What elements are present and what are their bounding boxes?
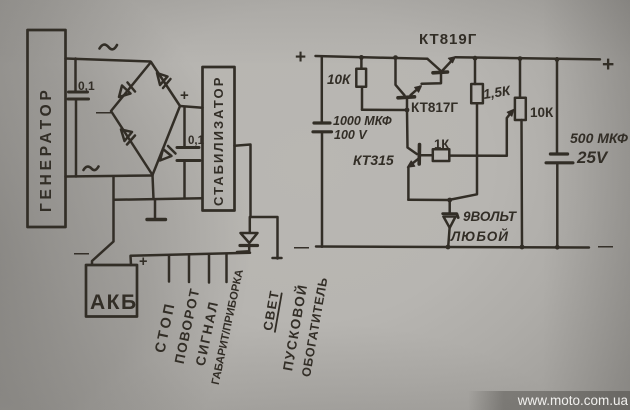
diode bridge diamond <box>111 62 180 175</box>
svg-text:9ВОЛЬТ: 9ВОЛЬТ <box>463 209 518 224</box>
terminal tick GABARIT <box>225 255 228 282</box>
wire R1 to base node <box>362 108 407 111</box>
svg-text:—: — <box>294 239 309 256</box>
svg-text:0,1: 0,1 <box>78 79 95 93</box>
transistor Q1 KT819G <box>419 31 477 84</box>
svg-text:500 МКФ: 500 МКФ <box>570 130 628 146</box>
svg-text:ГЕНЕРАТОР: ГЕНЕРАТОР <box>38 86 55 212</box>
zener diode VD 9V <box>443 200 518 247</box>
bottom rail <box>316 247 589 248</box>
svg-text:10К: 10К <box>530 105 554 120</box>
svg-text:10К: 10К <box>327 72 352 87</box>
wire KT315 emitter to zener node <box>408 199 449 202</box>
resistor R2 1,5K <box>451 59 513 200</box>
top rail right segment <box>456 57 601 59</box>
wire to SVET branch <box>251 217 278 259</box>
svg-text:100 V: 100 V <box>334 128 368 142</box>
node base KT817 dot <box>405 108 410 113</box>
junction dot rail R1 <box>359 55 364 60</box>
SVET terminal tick <box>273 257 282 260</box>
bridge diode D2 upper-right <box>157 73 171 88</box>
svg-text:+: + <box>180 87 189 104</box>
svg-text:КТ817Г: КТ817Г <box>411 100 458 115</box>
svg-text:+: + <box>295 47 306 68</box>
transistor Q2 KT817G <box>396 57 459 115</box>
svg-text:АКБ: АКБ <box>90 291 138 314</box>
potentiometer wiper arm <box>507 109 514 156</box>
bridge diode D4 lower-right <box>160 146 176 161</box>
wire bridge bottom to ground node <box>153 175 154 199</box>
terminal tick STOP <box>168 256 171 282</box>
capacitor C2 0,1 bridge output <box>177 108 205 198</box>
wire stabilizer output <box>235 145 251 217</box>
svg-text:ЛЮБОЙ: ЛЮБОЙ <box>450 228 509 244</box>
svg-text:КТ819Г: КТ819Г <box>419 31 477 48</box>
svg-text:СТАБИЛИЗАТОР: СТАБИЛИЗАТОР <box>211 75 226 206</box>
wire ground node horizontal <box>114 198 203 200</box>
terminal tick SIGNAL <box>208 255 211 283</box>
capacitor C4 500uF 25V <box>546 59 628 247</box>
capacitor C3 1000uF 100V <box>313 57 392 247</box>
resistor R3 1K <box>433 137 507 162</box>
transistor Q3 KT315 <box>353 110 433 200</box>
svg-text:КТ315: КТ315 <box>353 152 394 168</box>
top rail left segment <box>316 56 428 59</box>
svg-text:—: — <box>74 245 89 262</box>
bridge diode D1 upper-left <box>119 83 135 98</box>
junction dot bottom R4 <box>520 245 525 250</box>
ground <box>147 200 166 220</box>
svg-text:25V: 25V <box>576 148 609 167</box>
svg-text:—: — <box>598 238 613 255</box>
junction dot rail Q2 <box>393 55 398 60</box>
stabilizer box <box>203 67 235 211</box>
svg-text:1000 МКФ: 1000 МКФ <box>333 114 392 128</box>
label SVET (underlined) <box>260 288 282 331</box>
junction dot bottom C4 <box>555 245 560 250</box>
AC tilde top <box>100 45 118 50</box>
svg-text:—: — <box>96 104 111 121</box>
diode D5 to battery bus <box>237 217 258 252</box>
svg-text:+: + <box>602 53 614 76</box>
wire bridge output to stabilizer <box>180 106 203 108</box>
wire generator bottom AC <box>66 176 153 177</box>
battery AKB box <box>86 265 138 317</box>
potentiometer R4 10K <box>515 59 554 247</box>
svg-text:1К: 1К <box>434 137 449 152</box>
wire battery plus bus <box>131 253 251 265</box>
junction dot rail C4 <box>555 57 560 62</box>
zener node dot <box>447 198 452 203</box>
AC tilde bottom <box>84 167 99 171</box>
bridge diode D3 lower-left <box>121 130 135 145</box>
wire generator to battery minus <box>92 177 114 265</box>
junction dot bottom zener <box>446 245 451 250</box>
generator box <box>28 30 66 227</box>
resistor R1 10K <box>327 57 366 109</box>
junction dot rail R2 <box>473 56 478 61</box>
junction dot rail R4 <box>518 56 523 61</box>
wire generator top AC <box>66 59 151 62</box>
capacitor C1 0,1 across generator <box>68 59 95 177</box>
svg-text:1,5К: 1,5К <box>482 83 513 102</box>
terminal tick POVOROT <box>188 256 191 283</box>
